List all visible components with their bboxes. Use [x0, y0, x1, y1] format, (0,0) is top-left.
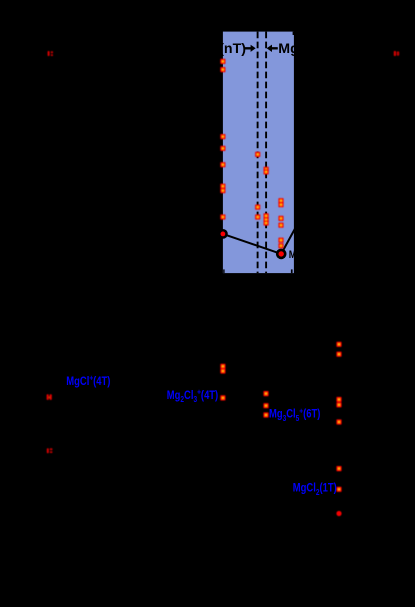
- axis tick at bottom edge near right corner: [291, 269, 293, 273]
- shaded blue region (cluster-stability window): [223, 32, 294, 274]
- dashed boundary line right (Mg phase limit): [265, 32, 267, 274]
- small red glyph lower-left axis: [47, 448, 53, 453]
- minimum point circle right (black ring, red core): [276, 249, 287, 260]
- data point column A x=223 (markers, red square yellow core): [220, 59, 225, 220]
- svg-text:Mg2Cl3+(4T): Mg2Cl3+(4T): [167, 387, 218, 404]
- plain red point: [336, 511, 341, 516]
- svg-text:Mg: Mg: [289, 249, 302, 261]
- axis tick at top edge near right corner: [293, 32, 295, 35]
- svg-text:(nT): (nT): [219, 41, 246, 57]
- small red glyph top-right axis: [394, 51, 399, 56]
- left arrow toward dashed line: [267, 45, 278, 52]
- data point column D x=281: [278, 198, 283, 248]
- axis tick at bottom edge left corner: [223, 269, 224, 273]
- svg-text:Mg: Mg: [278, 41, 299, 57]
- data point column G x=339 lower panel: [336, 342, 341, 492]
- svg-text:Mg3Cl5+(6T): Mg3Cl5+(6T): [269, 406, 320, 423]
- right arrow toward dashed line: [245, 45, 256, 52]
- small red glyph top-left axis: [48, 51, 53, 56]
- dashed boundary line left (nT phase limit): [257, 32, 259, 274]
- data point column E x=222.9 lower panel: [220, 364, 225, 401]
- minimum point circle left (black ring, red core): [218, 229, 228, 239]
- small red glyph mid-left axis: [47, 394, 52, 400]
- svg-text:MgCl+(4T): MgCl+(4T): [66, 373, 110, 388]
- data point column B x=257.7: [255, 152, 260, 220]
- data point column F x=266 lower panel: [263, 391, 268, 418]
- svg-text:MgCl2(1T): MgCl2(1T): [293, 482, 337, 497]
- energy polyline through minima: [212, 225, 297, 254]
- data point column C x=266.1: [264, 167, 269, 226]
